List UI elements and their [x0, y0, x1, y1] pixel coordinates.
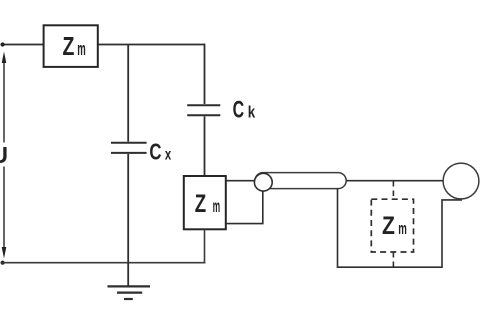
cable end cap circle — [254, 173, 272, 191]
svg-text:x: x — [165, 147, 172, 164]
dashed lead top of Zm3 — [392, 181, 394, 199]
capacitor Cx — [111, 45, 147, 263]
coaxial cable body (stadium) — [255, 173, 346, 189]
svg-text:C: C — [233, 97, 245, 124]
sphere electrode — [443, 163, 479, 199]
wire Zm2 bottom to bottom rail — [204, 229, 206, 262]
svg-text:Z: Z — [195, 191, 206, 218]
voltage arrow U (double-headed measuring arrow) — [2, 52, 7, 259]
capacitor Ck — [187, 44, 220, 176]
wire top (Zm to Ck branch corner) — [98, 44, 205, 46]
svg-text:Z: Z — [63, 33, 75, 61]
svg-text:Z: Z — [382, 213, 395, 240]
svg-text:m: m — [77, 39, 86, 59]
svg-text:k: k — [248, 104, 256, 122]
node top-left dot — [1, 42, 5, 46]
wire bottom (left rail) — [1, 262, 206, 264]
dashed lead bottom of Zm3 — [392, 252, 394, 267]
svg-text:U: U — [0, 142, 8, 168]
svg-text:m: m — [213, 196, 221, 216]
wire Zm2 bottom-right return — [226, 191, 263, 224]
label Cx — [149, 139, 171, 165]
wire cable to sphere electrode — [346, 180, 443, 182]
impedance Zm3 dashed box — [371, 199, 413, 252]
svg-text:C: C — [149, 139, 161, 165]
impedance Zm1 box — [44, 25, 98, 67]
wire right loop: cable bottom down, bottom rail, right rail up, stub to sphere bottom — [338, 188, 463, 267]
wire top-left (source to Zm) — [1, 44, 44, 46]
ground — [108, 263, 151, 299]
label Ck — [233, 97, 256, 124]
impedance Zm2 box — [184, 176, 226, 229]
node bottom-left dot — [1, 261, 5, 265]
wire Zm2 top-right to cable end — [226, 180, 256, 182]
svg-text:m: m — [398, 219, 407, 238]
